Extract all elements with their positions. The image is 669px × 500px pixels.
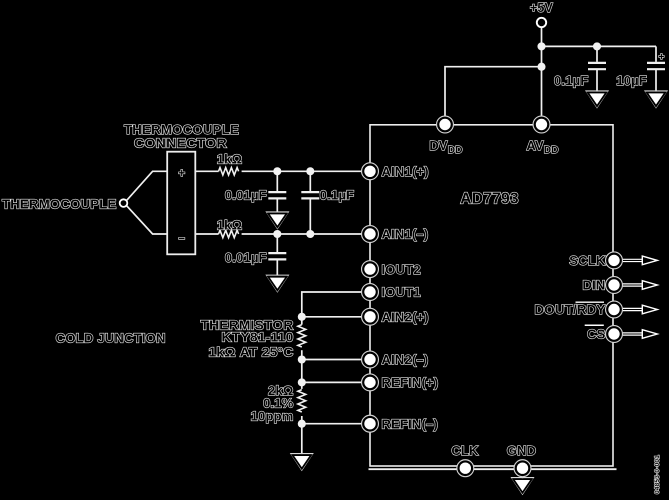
svg-text:CONNECTOR: CONNECTOR: [134, 136, 227, 151]
svg-text:CS: CS: [587, 327, 606, 342]
svg-text:1kΩ: 1kΩ: [217, 151, 242, 166]
svg-text:0.1µF: 0.1µF: [320, 187, 355, 202]
svg-text:0.1µF: 0.1µF: [554, 73, 589, 88]
svg-text:+: +: [658, 52, 664, 63]
svg-text:10µF: 10µF: [616, 73, 647, 88]
svg-text:DOUT/RDY: DOUT/RDY: [535, 302, 606, 317]
svg-text:REFIN(+): REFIN(+): [382, 375, 439, 390]
svg-text:04853-0-001: 04853-0-001: [654, 455, 661, 494]
svg-text:CLK: CLK: [451, 443, 479, 458]
svg-text:THERMOCOUPLE: THERMOCOUPLE: [2, 197, 117, 212]
svg-text:0.01µF: 0.01µF: [225, 250, 267, 265]
svg-text:REFIN(–): REFIN(–): [382, 416, 439, 431]
svg-text:–: –: [178, 233, 185, 245]
svg-text:+5V: +5V: [530, 1, 554, 15]
svg-text:AIN2(–): AIN2(–): [382, 352, 429, 367]
svg-text:0.01µF: 0.01µF: [225, 187, 267, 202]
svg-text:THERMOCOUPLE: THERMOCOUPLE: [124, 122, 239, 137]
svg-text:KTY81-110: KTY81-110: [222, 330, 294, 345]
svg-text:AIN2(+): AIN2(+): [382, 310, 429, 325]
svg-text:IOUT1: IOUT1: [382, 285, 421, 300]
svg-text:+: +: [178, 168, 185, 180]
svg-text:1kΩ: 1kΩ: [217, 217, 242, 232]
svg-text:SCLK: SCLK: [569, 253, 606, 268]
svg-text:COLD JUNCTION: COLD JUNCTION: [56, 331, 166, 346]
svg-text:DIN: DIN: [583, 278, 606, 293]
svg-text:IOUT2: IOUT2: [382, 262, 421, 277]
svg-text:1kΩ AT 25°C: 1kΩ AT 25°C: [209, 345, 294, 360]
svg-text:AIN1(–): AIN1(–): [382, 227, 429, 242]
svg-text:10ppm: 10ppm: [251, 408, 294, 423]
svg-text:AD7793: AD7793: [460, 190, 519, 207]
svg-text:AIN1(+): AIN1(+): [382, 164, 429, 179]
svg-text:GND: GND: [507, 443, 537, 458]
